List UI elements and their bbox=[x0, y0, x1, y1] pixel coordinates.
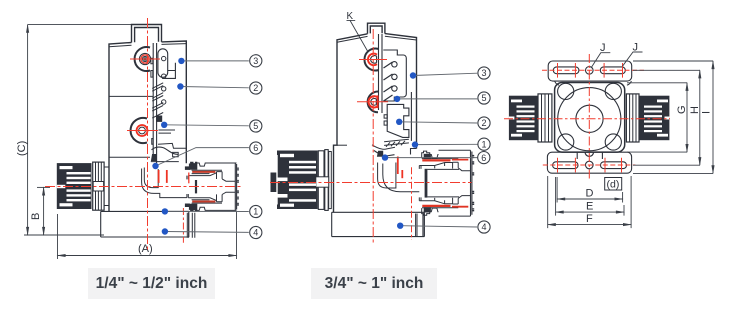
horizontal centerline v2 bbox=[270, 182, 472, 184]
dome circle bbox=[558, 88, 621, 151]
svg-text:F: F bbox=[586, 213, 593, 225]
channel collar bbox=[152, 139, 154, 145]
left nut knurled block bbox=[509, 96, 538, 141]
svg-text:1: 1 bbox=[481, 139, 486, 149]
view2 red centerlines bbox=[270, 29, 472, 243]
right nut knurled block bbox=[639, 96, 669, 141]
svg-text:4: 4 bbox=[253, 228, 258, 238]
corner bolt circle TR bbox=[605, 83, 621, 99]
vertical centerline bbox=[147, 18, 149, 250]
dimension G bbox=[627, 83, 687, 152]
lower bore and union box bbox=[188, 192, 235, 202]
top mounting plate bbox=[548, 61, 632, 81]
valve body square bbox=[555, 83, 625, 153]
J leader 1 bbox=[591, 53, 610, 68]
port2 side channel lines bbox=[159, 130, 176, 133]
lower clamp nut v2 bbox=[422, 208, 439, 215]
port1 crosshair bbox=[130, 58, 160, 60]
right nut flange ring bbox=[626, 94, 639, 142]
J leader 2 bbox=[623, 52, 643, 66]
view2 callout leaders bbox=[385, 73, 478, 227]
top plate center hole bbox=[586, 67, 594, 75]
seat piston v2 (bold) bbox=[425, 169, 428, 198]
svg-text:I: I bbox=[701, 111, 713, 114]
svg-text:H: H bbox=[689, 106, 701, 114]
corner bolt circle BR bbox=[605, 134, 621, 150]
bonnet cap bbox=[132, 25, 162, 43]
view2 actuator body outline bbox=[334, 23, 417, 212]
view1 handwheel knob bbox=[57, 162, 104, 210]
bottom plate center hole bbox=[586, 161, 594, 169]
slot plate bbox=[158, 49, 168, 78]
right end cap v2 bbox=[471, 150, 472, 216]
upper seal top line v2 bbox=[422, 158, 458, 160]
view1 outlet union (right side) bbox=[185, 162, 238, 211]
dimension (C) bbox=[24, 25, 132, 235]
lower wedge view2 bbox=[374, 151, 395, 157]
dimension I bbox=[633, 61, 713, 173]
svg-text:J: J bbox=[600, 42, 606, 54]
view1 actuator body outline bbox=[109, 25, 186, 213]
view2 spring plate with screws bbox=[372, 50, 419, 192]
drain pipe walls v2 bbox=[416, 214, 425, 237]
lower bore v2 bbox=[427, 196, 459, 198]
body lower seam bbox=[109, 156, 150, 158]
stem channel view2 bbox=[379, 34, 383, 113]
lower union internals v2 bbox=[419, 196, 470, 204]
dimension E bbox=[556, 177, 624, 216]
view1 callout leaders bbox=[156, 61, 249, 233]
corner bolt circle TL bbox=[558, 83, 574, 99]
lower bottom edge v2 bbox=[439, 215, 471, 217]
portK crosshair bbox=[359, 59, 387, 61]
top plate left slot bbox=[553, 67, 579, 74]
right nut white slots bbox=[644, 100, 669, 137]
upper stub ticks v2 bbox=[419, 166, 421, 169]
port 2 of view1 bbox=[131, 118, 148, 143]
right end cap bbox=[235, 163, 236, 210]
svg-text:3: 3 bbox=[253, 56, 258, 66]
bonnet cap view2 bbox=[368, 23, 385, 34]
red centerlines of front view bbox=[504, 54, 670, 179]
view1 internal bonnet plate with screws bbox=[142, 49, 187, 198]
view1 callout balloons bbox=[250, 55, 262, 239]
view1 base block bbox=[101, 211, 195, 237]
upper union internals v2 bbox=[419, 162, 470, 170]
drain centerline bbox=[182, 208, 184, 243]
red tick marks on bottom plate slots bbox=[558, 158, 622, 173]
svg-text:J: J bbox=[633, 42, 639, 54]
view2 outlet red seal lines bbox=[422, 160, 468, 207]
view2 red seat lines bbox=[398, 157, 403, 179]
horizontal centerline through bore bbox=[504, 118, 670, 120]
size label view1 bbox=[88, 268, 215, 299]
screw circles bbox=[162, 56, 166, 60]
neck arc below top plate left bbox=[555, 81, 560, 85]
left small tabs bbox=[151, 58, 153, 77]
upper top edge with wave dip bbox=[197, 163, 237, 166]
thread ticks v2 bbox=[473, 156, 475, 211]
body mid seam bbox=[109, 95, 153, 97]
left union nut of front view bbox=[509, 94, 552, 142]
svg-text:B: B bbox=[30, 213, 42, 220]
view2 base block bbox=[332, 212, 425, 236]
J labels and leaders bbox=[591, 52, 643, 68]
bottom mounting plate bbox=[547, 152, 631, 173]
outlet vertical red bbox=[188, 173, 190, 184]
view2 blue dots bbox=[382, 72, 418, 229]
upper pipe stub ticks bbox=[187, 176, 188, 180]
view2 outlet union bbox=[419, 150, 474, 216]
upper bore and union box bbox=[188, 172, 235, 182]
dimension B bbox=[37, 187, 50, 235]
upper top edge v2 bbox=[439, 149, 471, 151]
dimension F bbox=[548, 176, 631, 228]
vertical centerline bbox=[588, 54, 590, 179]
lower stub ticks v2 bbox=[419, 197, 421, 200]
upper clamp nut bbox=[189, 162, 196, 169]
view2 callout balloons bbox=[478, 67, 490, 233]
upper clamp nut v2 bbox=[422, 151, 439, 158]
piston polygon bbox=[387, 104, 409, 137]
lower dark blob bbox=[156, 116, 162, 122]
view2 handwheel knob bbox=[271, 150, 332, 211]
view1 outlet red seal lines bbox=[192, 172, 215, 202]
thread ticks bbox=[237, 168, 239, 205]
svg-text:G: G bbox=[676, 105, 688, 114]
inner top edges v2 bbox=[337, 36, 417, 42]
view1 body neck between knob and body bbox=[104, 167, 109, 206]
horizontal centerline bbox=[45, 186, 243, 188]
view1 red seat lines bbox=[159, 170, 167, 183]
svg-text:(C): (C) bbox=[16, 141, 28, 156]
spring slant bars bbox=[152, 83, 163, 118]
view1 red centerlines bbox=[45, 18, 243, 250]
view1 blue dots bbox=[152, 58, 184, 235]
upper bore v2 bbox=[427, 168, 459, 170]
svg-text:D: D bbox=[586, 188, 594, 200]
bottom plate dashed centerline bbox=[543, 164, 636, 166]
svg-text:(d): (d) bbox=[607, 179, 620, 191]
svg-text:3: 3 bbox=[481, 68, 486, 78]
lower clamp nut bbox=[189, 204, 196, 211]
svg-text:5: 5 bbox=[481, 93, 486, 103]
drain pipe walls bbox=[187, 213, 195, 238]
left nut white slots bbox=[509, 100, 535, 137]
inner top edges bbox=[109, 44, 186, 47]
center bore bbox=[576, 105, 603, 132]
dimension D bbox=[557, 177, 623, 203]
lower seal bottom line v2 bbox=[422, 207, 458, 209]
port K of view2 bbox=[364, 49, 378, 71]
drain centerline v2 bbox=[411, 167, 413, 240]
left nut flange ring bbox=[538, 94, 552, 142]
svg-text:(A): (A) bbox=[138, 243, 153, 255]
bottom center notch semicircle bbox=[585, 152, 593, 156]
lower bottom edge with wave dip bbox=[197, 207, 237, 210]
dimension H bbox=[633, 70, 700, 165]
svg-text:E: E bbox=[586, 201, 593, 213]
K leader bbox=[347, 20, 368, 51]
svg-text:6: 6 bbox=[481, 153, 486, 163]
port 1 of view1 bbox=[135, 47, 151, 71]
svg-text:2: 2 bbox=[481, 118, 486, 128]
bottom plate left slot bbox=[553, 162, 578, 169]
port2 crosshair v2 bbox=[357, 101, 388, 103]
diaphragm hatched band bbox=[384, 139, 409, 147]
corner bolt circle BL bbox=[558, 134, 574, 150]
diaphragm wedge bbox=[152, 147, 179, 154]
top plate dashed centerline bbox=[542, 69, 644, 71]
body lower-left seam bbox=[337, 144, 347, 146]
bottom center boss bbox=[577, 152, 602, 159]
bonnet flange vertical bbox=[410, 92, 412, 141]
size label view2 bbox=[311, 268, 437, 299]
svg-text:2: 2 bbox=[253, 83, 258, 93]
port 2 of view2 bbox=[368, 92, 378, 113]
upper seal band bbox=[192, 170, 222, 173]
lower seal band bbox=[192, 200, 222, 203]
elbow passage view1 bbox=[144, 168, 158, 188]
red tick marks on top plate slots bbox=[558, 63, 623, 78]
neck arc below top plate right bbox=[627, 81, 632, 85]
piston left tabs bbox=[384, 115, 387, 125]
svg-text:6: 6 bbox=[253, 143, 258, 153]
port2 crosshair bbox=[127, 130, 158, 132]
svg-text:1: 1 bbox=[253, 207, 258, 217]
right union nut of front view bbox=[626, 94, 669, 142]
top plate right slot bbox=[600, 67, 625, 74]
svg-text:4: 4 bbox=[481, 222, 486, 232]
bottom plate right slot bbox=[601, 162, 627, 169]
(d) reference box bbox=[605, 178, 622, 191]
lower pipe stub ticks bbox=[187, 194, 188, 198]
elbow passage view2 bbox=[378, 163, 396, 189]
stem channel bbox=[153, 43, 156, 163]
spring diagonals view2 bbox=[384, 62, 393, 101]
vertical centerline v2 bbox=[372, 29, 374, 243]
funnel neck bbox=[158, 143, 186, 148]
svg-text:5: 5 bbox=[253, 121, 258, 131]
seat piston bbox=[195, 180, 197, 193]
step to outlet bbox=[411, 149, 417, 155]
dimension (A) bbox=[58, 212, 237, 259]
